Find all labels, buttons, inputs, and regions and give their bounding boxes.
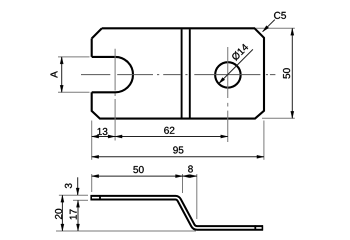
- dimension 13: [92, 136, 115, 138]
- dimension A: [61, 57, 63, 92]
- bend line right (visible edge): [189, 29, 191, 117]
- strip inner white: [91, 198, 264, 228]
- hole Ø14: [215, 62, 241, 88]
- strip left end cap: [90, 195, 92, 200]
- bend line left (visible edge): [181, 29, 183, 117]
- bend chain line at 13: [114, 49, 116, 141]
- leader Ø14: [219, 49, 253, 83]
- dimension 8: [183, 175, 197, 177]
- extension line right (95): [263, 121, 265, 160]
- horizontal center line (chain): [81, 74, 275, 76]
- extension lines side view: [91, 174, 93, 192]
- dimension 50 (right): [291, 28, 293, 118]
- dimension 62: [115, 136, 228, 138]
- dimension 50 (side): [92, 175, 183, 177]
- plate outline with chamfered corners: [92, 28, 264, 118]
- leader C5: [263, 20, 275, 32]
- extension line top right (50): [256, 27, 295, 29]
- dimension 3: [77, 177, 79, 195]
- chamfer edge tick right: [254, 225, 256, 230]
- extension lines for A: [58, 56, 90, 58]
- bent strip outline: [91, 198, 264, 228]
- hole vertical center line / extension for 62: [227, 47, 229, 142]
- chamfer edge tick left: [99, 195, 101, 200]
- dimension 17: [77, 200, 79, 231]
- extension line bottom right (50): [262, 117, 295, 119]
- slot (open keyway, radius end): [92, 57, 133, 92]
- dimension 20: [61, 195, 63, 231]
- extension line left (95): [91, 121, 93, 160]
- dimension 95: [92, 156, 264, 158]
- strip right end cap: [261, 225, 263, 230]
